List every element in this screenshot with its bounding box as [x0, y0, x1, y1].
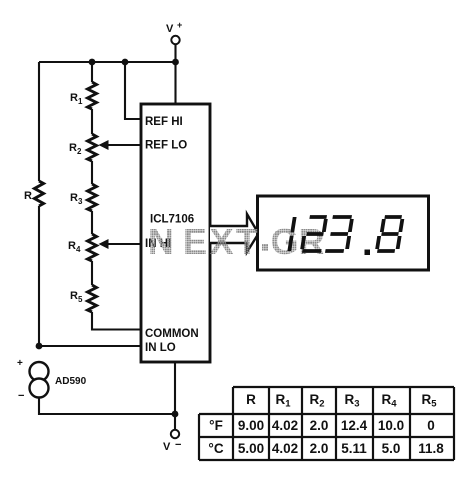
wire chain top to R1 [91, 62, 93, 82]
svg-text:R2: R2 [309, 392, 324, 410]
svg-text:E: E [183, 221, 207, 262]
svg-text:12.4: 12.4 [341, 418, 368, 433]
svg-text:COMMON: COMMON [145, 328, 199, 340]
svg-text:+: + [177, 20, 182, 30]
digit 2 [302, 217, 327, 251]
wire V+ down to top rail [174, 44, 176, 62]
svg-text:R5: R5 [421, 392, 437, 410]
digit 3 [325, 217, 352, 251]
potentiometer R4 [68, 234, 97, 261]
wire left branch down [38, 62, 40, 181]
resistor R1 [70, 82, 97, 109]
potentiometer R2 [69, 134, 97, 161]
node IN LO / AD590 [36, 343, 43, 350]
svg-text:−: − [175, 439, 181, 451]
wire IC bottom to V- node [174, 362, 176, 414]
svg-text:4: 4 [76, 245, 81, 254]
wire V+ rail into IC top [174, 62, 176, 104]
svg-text:2: 2 [77, 147, 82, 156]
svg-text:R: R [70, 192, 78, 204]
svg-text:R4: R4 [381, 392, 397, 410]
svg-text:R: R [70, 92, 78, 104]
resistor R3 [70, 184, 97, 211]
svg-text:X: X [210, 221, 234, 262]
terminal V+ [166, 20, 182, 44]
svg-text:4.02: 4.02 [272, 441, 298, 456]
svg-text:5.00: 5.00 [238, 441, 264, 456]
wiper arrow R2 to REF LO [99, 140, 142, 150]
svg-text:R: R [24, 190, 32, 202]
svg-text:R1: R1 [275, 392, 291, 410]
node top rail / V+ [172, 59, 179, 66]
svg-text:N: N [148, 221, 174, 262]
wire IN LO rail [39, 345, 141, 347]
svg-text:R: R [246, 392, 256, 407]
terminal V- [163, 430, 181, 453]
svg-text:R: R [69, 142, 77, 154]
svg-text:0: 0 [427, 418, 435, 433]
svg-text:°F: °F [209, 418, 223, 433]
svg-text:5: 5 [78, 295, 83, 304]
node top rail / divider chain [89, 59, 96, 66]
wire left branch R to IN LO node [38, 206, 40, 346]
watermark NEXT.GR [148, 221, 325, 262]
svg-text:T: T [236, 221, 258, 262]
svg-text:+: + [17, 358, 23, 369]
node top rail / REF HI branch [122, 59, 129, 66]
wiper arrow R4 to IN HI [99, 239, 142, 249]
display digits 123.8 [289, 217, 402, 255]
svg-text:REF LO: REF LO [145, 140, 187, 152]
table of component values [199, 387, 454, 460]
wire R2 to R3 [91, 161, 93, 184]
svg-text:AD590: AD590 [55, 376, 87, 387]
svg-text:R: R [70, 290, 78, 302]
svg-text:R3: R3 [344, 392, 359, 410]
decimal point [365, 250, 371, 256]
svg-text:5.11: 5.11 [341, 441, 367, 456]
resistor R5 [70, 285, 97, 312]
svg-text:R: R [68, 240, 76, 252]
svg-text:IN LO: IN LO [145, 342, 176, 354]
display LCD [258, 196, 429, 270]
svg-text:V: V [166, 23, 174, 35]
wire AD590 to bottom rail [39, 398, 175, 415]
svg-text:9.00: 9.00 [238, 418, 264, 433]
digit 8 [377, 217, 403, 251]
wire V- node to terminal [174, 414, 176, 430]
wire R3 to R4 [91, 211, 93, 234]
svg-text:2.0: 2.0 [310, 441, 329, 456]
IC U1 ICL7106 [141, 104, 210, 362]
digit 1 [289, 217, 294, 251]
wire top rail [39, 61, 176, 63]
svg-text:11.8: 11.8 [418, 441, 444, 456]
svg-text:°C: °C [208, 441, 223, 456]
svg-text:1: 1 [78, 97, 83, 106]
node bottom rail / V- [172, 411, 179, 418]
wire R4 to R5 [91, 261, 93, 285]
svg-text:−: − [18, 390, 24, 402]
svg-text:4.02: 4.02 [272, 418, 298, 433]
wire REF HI branch [125, 62, 141, 119]
svg-text:3: 3 [78, 197, 83, 206]
svg-text:V: V [163, 441, 171, 453]
wire R5 bottom to COMMON [92, 312, 141, 330]
arrow IC to display [210, 214, 259, 252]
svg-text:REF HI: REF HI [145, 116, 183, 128]
wire R1 to R2 [91, 109, 93, 134]
current source AD590 [17, 358, 87, 402]
resistor R [24, 181, 44, 206]
svg-text:2.0: 2.0 [310, 418, 329, 433]
svg-text:5.0: 5.0 [382, 441, 401, 456]
svg-text:10.0: 10.0 [378, 418, 404, 433]
